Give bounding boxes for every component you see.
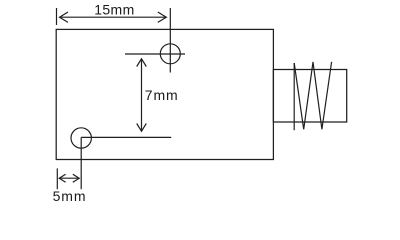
spring end line <box>293 63 295 130</box>
plate outline <box>56 29 273 159</box>
hole H2 centerline vertical / 5mm right extension <box>80 137 82 189</box>
spring zigzag <box>294 62 331 130</box>
dimension 7mm bottom arrowhead <box>137 124 147 132</box>
hole H2 centerline horizontal <box>81 136 171 138</box>
dimension 15mm left arrowhead <box>60 12 69 22</box>
hole H1 centerline horizontal <box>125 53 185 55</box>
dimension 15mm line <box>60 16 167 18</box>
dimension 7mm label <box>145 87 179 103</box>
dimension 5mm line <box>59 177 79 179</box>
dimension 15mm left extension tick <box>56 8 58 25</box>
dimension 15mm label <box>94 1 135 17</box>
dimension 5mm label <box>53 188 87 204</box>
svg-text:5mm: 5mm <box>53 188 87 204</box>
dimension 5mm left extension tick <box>56 168 58 189</box>
connector block outline <box>273 70 346 123</box>
dimension 5mm right arrowhead <box>73 174 79 182</box>
hole H1 centerline vertical / 15mm right extension <box>169 8 171 73</box>
dimension 15mm right arrowhead <box>158 12 167 22</box>
svg-text:7mm: 7mm <box>145 87 179 103</box>
dimension 5mm left arrowhead <box>59 174 65 182</box>
svg-text:15mm: 15mm <box>94 1 135 17</box>
dimension 7mm line <box>141 59 143 131</box>
hole H2 circle <box>71 128 91 148</box>
dimension 7mm top arrowhead <box>137 59 147 67</box>
hole H1 circle <box>160 44 180 64</box>
